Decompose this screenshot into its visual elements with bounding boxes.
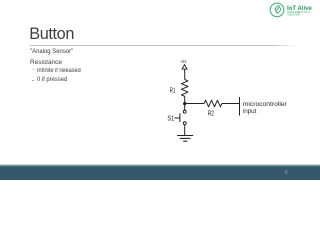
svg-text:R2: R2: [208, 111, 214, 118]
switch S1 top terminal: [183, 110, 186, 113]
svg-text:S1: S1: [167, 116, 174, 123]
svg-text:R1: R1: [170, 88, 176, 95]
logo circle: [270, 3, 284, 17]
logo tagline line 1: [287, 10, 310, 14]
resistor R1: [181, 80, 188, 97]
wire junction to switch S1: [184, 104, 186, 111]
ground symbol: [177, 136, 193, 142]
wire switch to ground: [184, 125, 186, 136]
logo tagline line 2: [287, 12, 299, 16]
switch S1 actuator bar: [179, 113, 181, 122]
svg-text:input: input: [243, 108, 257, 115]
junction node dot: [183, 102, 186, 105]
bullet text: 0 if pressed: [37, 77, 67, 83]
wire supply to R1: [184, 70, 186, 80]
svg-text:AGRICULTURE: AGRICULTURE: [287, 12, 299, 16]
label S1: [167, 116, 174, 123]
logo wordmark IoT Alive: [287, 5, 312, 12]
bullet text: Infinite if released: [37, 68, 81, 74]
IoT Alive logo: [262, 0, 320, 22]
resistor R2: [204, 100, 222, 107]
wire R1 to junction: [184, 96, 186, 103]
footer bar: [0, 164, 320, 180]
bullet marker 2: [32, 80, 34, 81]
wire R2 to input pin: [222, 103, 240, 105]
label microcontroller input: [243, 101, 288, 115]
circuit schematic: [0, 0, 320, 180]
label R2: [208, 111, 214, 118]
subtitle "Analog Sensor": [30, 49, 73, 55]
bullet marker 1: [33, 69, 35, 70]
switch S1 actuator link: [174, 117, 180, 119]
svg-text:+5V: +5V: [181, 59, 188, 64]
label R1: [170, 88, 176, 95]
wire junction to R2: [185, 103, 204, 105]
slide number: [285, 171, 288, 177]
heading Resistance: [30, 60, 62, 67]
slide title "Button": [29, 26, 74, 42]
switch S1 bottom terminal: [183, 122, 186, 125]
title underline rule: [30, 45, 296, 47]
+5V supply triangle symbol: [182, 65, 187, 70]
+5V net label: [181, 59, 188, 64]
logo pin icon: [275, 6, 281, 14]
microcontroller input pin bar: [239, 97, 241, 116]
